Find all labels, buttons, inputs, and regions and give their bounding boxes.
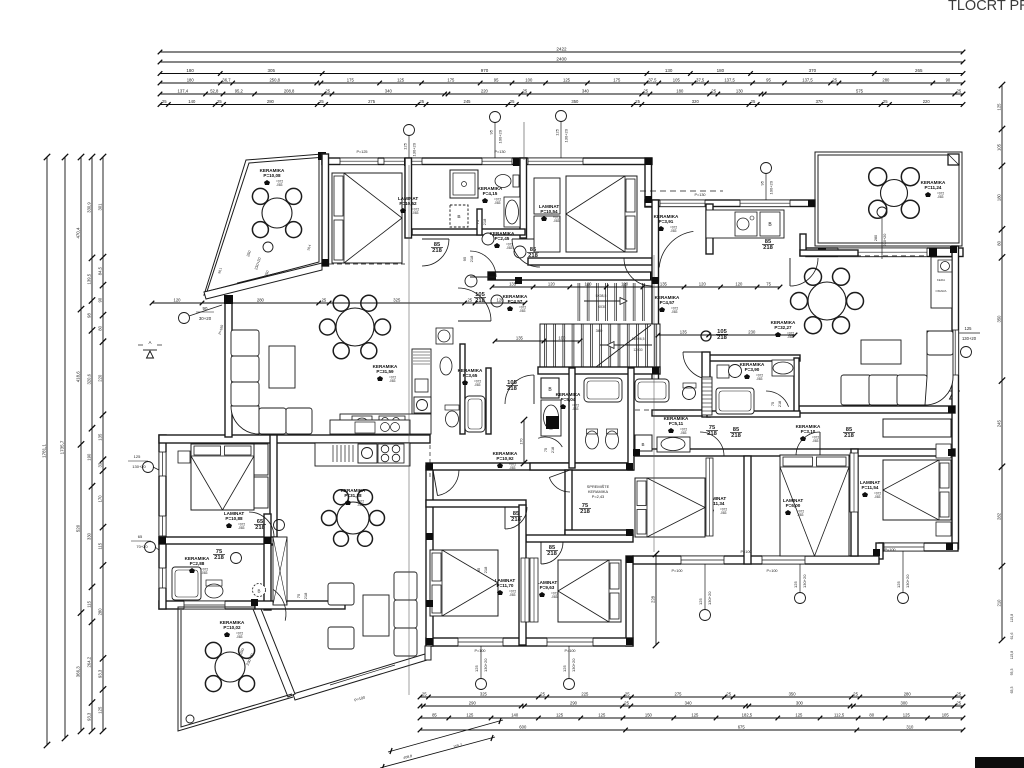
lower terrace parapet <box>178 607 293 731</box>
svg-text:220: 220 <box>481 88 489 93</box>
bottom step wall x=626 <box>626 556 633 646</box>
svg-text:80: 80 <box>869 712 874 717</box>
svg-text:85: 85 <box>476 567 481 572</box>
fridge circle top WC <box>436 328 453 344</box>
svg-text:575: 575 <box>856 88 864 93</box>
door knob circle right apt <box>701 331 711 341</box>
svg-text:340: 340 <box>582 88 590 93</box>
svg-text:220: 220 <box>97 374 102 382</box>
svg-text:P=11,70: P=11,70 <box>497 583 514 588</box>
bathroom lower-left fixtures <box>172 567 201 600</box>
WC wall <box>460 344 465 434</box>
svg-text:120: 120 <box>621 281 629 286</box>
living dim line y=303 <box>152 302 525 304</box>
svg-text:P=10,88: P=10,88 <box>225 516 243 521</box>
svg-text:340: 340 <box>385 88 393 93</box>
kitchen sink lower <box>358 444 377 463</box>
svg-text:125: 125 <box>996 103 1001 111</box>
top wall lower-left apartment <box>159 435 430 443</box>
bath1 bottom wall <box>412 229 525 235</box>
svg-text:218: 218 <box>763 245 773 251</box>
bath divider wall 2 <box>628 368 634 470</box>
svg-text:B: B <box>641 442 644 447</box>
svg-text:125: 125 <box>598 712 606 717</box>
svg-text:TLOCRT PR: TLOCRT PR <box>948 0 1024 14</box>
svg-text:P=10,08: P=10,08 <box>263 173 281 178</box>
corridor dim line y=341 <box>495 340 580 342</box>
kitchen counter right apartment <box>706 210 784 238</box>
svg-text:218: 218 <box>482 218 487 225</box>
kitchen vertical counter upper apt <box>412 349 431 414</box>
window marker bottom right 3 <box>898 593 909 604</box>
door arcs corridor right apt <box>700 432 724 456</box>
svg-text:70+20: 70+20 <box>136 544 148 549</box>
svg-text:25: 25 <box>643 88 648 93</box>
svg-text:320: 320 <box>692 99 700 104</box>
exterior top wall B <box>645 200 815 207</box>
svg-text:75: 75 <box>771 402 775 406</box>
svg-text:130+20: 130+20 <box>707 591 712 605</box>
svg-text:P=4,57: P=4,57 <box>660 300 675 305</box>
wall below terrace TR with glazing <box>806 248 963 257</box>
coffee table lower <box>363 595 389 636</box>
svg-text:130+20: 130+20 <box>412 142 417 156</box>
svg-text:220: 220 <box>923 99 931 104</box>
svg-text:P=10,52: P=10,52 <box>399 201 417 206</box>
window marker wall B <box>761 163 772 174</box>
door left bath <box>538 437 562 447</box>
svg-text:137,4: 137,4 <box>178 88 189 93</box>
svg-text:P=10,02: P=10,02 <box>223 625 241 630</box>
svg-text:100: 100 <box>525 77 533 82</box>
svg-text:P=4,15: P=4,15 <box>483 191 498 196</box>
svg-text:170: 170 <box>97 495 102 503</box>
svg-text:-083: -083 <box>506 246 513 250</box>
top wall A windows <box>340 157 378 165</box>
svg-text:366,3: 366,3 <box>75 666 80 678</box>
svg-text:P=2,45: P=2,45 <box>495 236 510 241</box>
svg-text:25: 25 <box>422 691 427 696</box>
svg-text:105: 105 <box>673 77 681 82</box>
wardrobe right apt bedroom1 <box>706 458 713 536</box>
stairs upper flight <box>578 283 644 321</box>
door centre bedroom1 <box>505 507 527 529</box>
washing machine bathroom1 <box>450 205 468 227</box>
svg-text:130+20: 130+20 <box>483 658 488 672</box>
armchair 2 <box>328 627 354 649</box>
window marker top 1 <box>404 125 415 136</box>
svg-text:-083: -083 <box>357 503 364 507</box>
sink bath 3,90 <box>772 360 794 376</box>
svg-text:125: 125 <box>555 128 560 135</box>
svg-text:275: 275 <box>368 99 376 104</box>
door bath 3,90 <box>766 391 789 407</box>
svg-text:-083: -083 <box>670 229 677 233</box>
svg-text:218: 218 <box>507 386 517 392</box>
washer lower-left <box>253 584 266 597</box>
bedroom divider 1 <box>744 456 751 564</box>
svg-text:137,5: 137,5 <box>802 77 813 82</box>
svg-text:470,4: 470,4 <box>75 227 80 239</box>
bathroom east wall lower-left <box>264 514 271 610</box>
svg-text:P=2,88: P=2,88 <box>190 561 205 566</box>
svg-text:-083: -083 <box>937 195 944 199</box>
sink bathroom1 <box>504 197 520 227</box>
svg-text:1735,7: 1735,7 <box>59 440 64 454</box>
living room west wall <box>225 297 232 437</box>
washer right bath <box>635 435 652 451</box>
vertical dim x=654 <box>655 554 657 645</box>
svg-text:OMARA: OMARA <box>935 289 946 293</box>
wardrobe bedroom3 <box>850 453 858 512</box>
stair hall walls <box>652 200 659 385</box>
svg-text:280: 280 <box>882 77 890 82</box>
svg-text:95: 95 <box>494 77 499 82</box>
svg-text:25: 25 <box>523 88 528 93</box>
svg-text:P=3,91: P=3,91 <box>659 219 674 224</box>
window markers bottom centre <box>476 679 487 690</box>
bedroom east wall lower-left <box>270 435 277 545</box>
WC toilet <box>446 411 459 427</box>
svg-text:P=130: P=130 <box>494 150 505 154</box>
armchair 1 <box>328 583 354 605</box>
svg-text:36,7: 36,7 <box>222 77 231 82</box>
svg-text:300: 300 <box>796 700 804 705</box>
svg-text:180: 180 <box>996 193 1001 201</box>
bed right apt bedroom3 <box>883 460 951 520</box>
tall cupboard right side <box>931 257 952 308</box>
exterior step wall right of wall A <box>645 158 652 207</box>
svg-text:-083: -083 <box>680 431 687 435</box>
svg-text:P=100: P=100 <box>766 569 777 573</box>
door arc entry right apt <box>659 231 693 267</box>
black scale bar bottom right <box>975 757 1024 768</box>
wall below stairs <box>538 367 660 374</box>
svg-text:350: 350 <box>996 315 1001 323</box>
svg-text:84,5: 84,5 <box>97 266 102 275</box>
svg-text:-083: -083 <box>553 219 560 223</box>
bedroom2 bottom wall <box>528 258 652 265</box>
svg-text:30+20: 30+20 <box>199 316 212 321</box>
svg-text:25: 25 <box>325 88 330 93</box>
top wall B window <box>660 199 705 207</box>
terrace TR column <box>948 154 959 165</box>
bathtub 2 <box>635 379 669 402</box>
svg-text:330: 330 <box>86 532 91 540</box>
WC sink <box>440 357 452 375</box>
bed centre apt right <box>558 560 621 622</box>
svg-text:-083: -083 <box>238 526 245 530</box>
sofa lower <box>394 572 417 600</box>
svg-text:175: 175 <box>613 77 621 82</box>
dashed partition right bath <box>635 409 695 411</box>
svg-text:140: 140 <box>511 712 519 717</box>
svg-text:218: 218 <box>483 566 488 573</box>
bath divider wall 1 <box>569 368 575 468</box>
svg-text:B: B <box>457 214 460 220</box>
bedroom divider 2 <box>851 449 858 556</box>
svg-text:-083: -083 <box>509 593 516 597</box>
svg-text:25: 25 <box>957 88 962 93</box>
svg-text:280: 280 <box>97 608 102 616</box>
svg-text:37,5: 37,5 <box>696 77 705 82</box>
window marker left 2 <box>143 462 154 473</box>
svg-text:130+20: 130+20 <box>132 464 146 469</box>
svg-text:112,5: 112,5 <box>834 712 845 717</box>
svg-text:228: 228 <box>650 595 655 603</box>
svg-text:-083: -083 <box>276 183 283 187</box>
dining table right apartment <box>808 282 846 320</box>
svg-text:139,5: 139,5 <box>86 273 91 284</box>
svg-text:218: 218 <box>528 253 538 259</box>
svg-text:218: 218 <box>731 433 741 439</box>
sofa right apartment <box>841 375 871 405</box>
vanity right bath <box>657 437 690 452</box>
svg-text:-083: -083 <box>519 309 526 313</box>
svg-text:105: 105 <box>942 712 950 717</box>
svg-text:218: 218 <box>844 433 854 439</box>
svg-text:301: 301 <box>97 203 102 211</box>
terrace column circle <box>186 715 194 723</box>
door hall arc 2 <box>470 251 496 277</box>
svg-text:350: 350 <box>789 691 797 696</box>
bed centre apt left <box>430 550 498 616</box>
nightstands bedroom3 <box>936 444 951 458</box>
svg-text:125: 125 <box>698 598 703 605</box>
svg-text:25: 25 <box>832 77 837 82</box>
right dimension chain <box>1001 85 1003 640</box>
entry wall <box>255 601 345 609</box>
svg-text:100+20: 100+20 <box>769 180 774 194</box>
svg-text:25: 25 <box>510 99 515 104</box>
svg-text:P=5,11: P=5,11 <box>669 421 684 426</box>
svg-text:125: 125 <box>403 142 408 149</box>
door arc hall-bath2 <box>512 239 540 267</box>
svg-text:125: 125 <box>903 712 911 717</box>
svg-text:P=100: P=100 <box>474 649 485 653</box>
svg-text:175: 175 <box>347 77 355 82</box>
svg-text:95,2: 95,2 <box>235 88 244 93</box>
svg-text:25: 25 <box>322 297 327 302</box>
svg-text:280: 280 <box>267 99 275 104</box>
svg-text:218: 218 <box>214 555 224 561</box>
upper corridor bottom wall <box>488 272 658 280</box>
bed lower-left bedroom <box>191 444 254 510</box>
svg-text:25: 25 <box>956 700 961 705</box>
angled wall A thick <box>251 604 295 697</box>
diagonal dimension line 408,8 <box>380 720 503 768</box>
svg-text:265: 265 <box>915 68 923 73</box>
toilet right bath <box>683 387 696 400</box>
svg-text:300: 300 <box>901 700 909 705</box>
svg-text:250,8: 250,8 <box>269 77 280 82</box>
svg-text:93,3: 93,3 <box>86 712 91 721</box>
svg-text:B: B <box>257 589 260 594</box>
bathroom P=3,90 walls <box>707 355 800 361</box>
svg-text:-083: -083 <box>797 513 804 517</box>
svg-text:418,6: 418,6 <box>75 371 80 383</box>
door bedroom1-hall <box>422 239 449 266</box>
svg-text:P=9,63: P=9,63 <box>540 585 555 590</box>
terrace TR rotated dims + marker <box>877 207 887 217</box>
svg-text:310: 310 <box>906 724 914 729</box>
svg-text:-083: -083 <box>671 310 678 314</box>
svg-text:210: 210 <box>996 599 1001 607</box>
svg-text:95: 95 <box>766 77 771 82</box>
svg-text:120: 120 <box>735 281 743 286</box>
svg-text:280: 280 <box>874 235 878 241</box>
bedroom1 right wall <box>405 158 412 238</box>
svg-text:125: 125 <box>896 581 901 588</box>
left wall windows <box>158 452 166 476</box>
svg-text:93,3: 93,3 <box>97 669 102 678</box>
svg-text:130+20: 130+20 <box>564 128 569 142</box>
vertical dim x=520 small <box>523 420 525 463</box>
section mark right <box>950 392 957 399</box>
window markers bottom right <box>700 610 711 621</box>
svg-text:170: 170 <box>519 439 523 445</box>
svg-text:-083: -083 <box>509 466 516 470</box>
svg-text:125: 125 <box>397 77 405 82</box>
svg-text:140: 140 <box>188 99 196 104</box>
bedroom divider centre <box>519 505 526 645</box>
svg-text:P=11,54: P=11,54 <box>862 485 879 490</box>
svg-text:P=5,04: P=5,04 <box>561 397 576 402</box>
right bedroom top wall <box>526 535 633 542</box>
svg-text:330,9: 330,9 <box>86 202 91 213</box>
top dimension chain block <box>160 51 963 53</box>
svg-text:P=125: P=125 <box>356 150 367 154</box>
svg-text:340: 340 <box>685 700 693 705</box>
left bedroom top wall <box>426 500 526 507</box>
svg-text:37,5: 37,5 <box>648 77 657 82</box>
svg-text:P=130: P=130 <box>694 193 705 197</box>
svg-text:175: 175 <box>447 77 455 82</box>
right wall window <box>951 330 959 375</box>
exterior top wall A <box>322 158 652 165</box>
svg-text:90: 90 <box>97 297 102 302</box>
black fixture <box>546 416 559 429</box>
svg-text:180: 180 <box>187 77 195 82</box>
svg-text:135: 135 <box>660 281 668 286</box>
bedroom1 left wall <box>322 154 329 266</box>
svg-text:520: 520 <box>75 524 80 532</box>
section mark left <box>147 351 154 358</box>
svg-text:P=100: P=100 <box>740 550 751 554</box>
axis line vertical x=524 <box>523 122 525 160</box>
svg-text:25: 25 <box>419 99 424 104</box>
columns top wall A <box>404 158 412 166</box>
svg-text:80: 80 <box>97 325 102 330</box>
svg-text:-083: -083 <box>756 377 763 381</box>
bed bedroom1 <box>332 173 402 263</box>
svg-text:120: 120 <box>548 281 556 286</box>
nightstand lower-left <box>178 451 190 463</box>
svg-text:180: 180 <box>186 68 194 73</box>
window marker top 2 <box>490 112 501 123</box>
stove upper apt <box>414 397 431 413</box>
terrace TL column <box>318 152 326 160</box>
svg-text:115,8: 115,8 <box>1010 614 1014 623</box>
svg-text:290: 290 <box>570 700 578 705</box>
door apt entry left <box>505 375 534 404</box>
svg-text:130: 130 <box>665 68 673 73</box>
terrace TR round table <box>881 180 908 207</box>
svg-text:KERA: KERA <box>937 278 945 282</box>
corner column living room <box>224 295 233 304</box>
kitchen wall right apartment <box>706 204 713 254</box>
svg-text:360: 360 <box>596 328 603 333</box>
toilets pair <box>586 431 599 449</box>
svg-text:125: 125 <box>965 326 973 331</box>
svg-text:120: 120 <box>585 281 593 286</box>
wardrobe lower-left bedroom <box>251 444 268 475</box>
svg-text:137,5: 137,5 <box>724 77 735 82</box>
svg-text:90: 90 <box>203 306 208 311</box>
svg-text:245: 245 <box>464 99 472 104</box>
svg-text:75: 75 <box>766 281 771 286</box>
svg-text:600: 600 <box>519 724 527 729</box>
wardrobe entry <box>273 537 287 605</box>
svg-text:25: 25 <box>162 99 167 104</box>
bedroom bottom wall <box>159 537 277 544</box>
svg-text:P=6,00: P=6,00 <box>786 503 801 508</box>
svg-text:180: 180 <box>717 68 725 73</box>
terrace top-right parapet <box>815 152 962 246</box>
svg-text:P=100: P=100 <box>671 569 682 573</box>
svg-text:130+20: 130+20 <box>802 574 807 588</box>
svg-text:125: 125 <box>466 712 474 717</box>
lower terrace table <box>215 652 245 682</box>
svg-text:135: 135 <box>680 329 688 334</box>
svg-text:125: 125 <box>795 712 803 717</box>
dashed line below kitchen <box>429 445 431 480</box>
svg-text:120: 120 <box>699 281 707 286</box>
svg-text:-083: -083 <box>236 635 243 639</box>
svg-text:2400: 2400 <box>556 56 567 61</box>
svg-text:P=3,65: P=3,65 <box>463 373 478 378</box>
corridor top wall centre apartment <box>426 463 633 470</box>
svg-text:125: 125 <box>134 454 141 459</box>
angled wall B with window (lower terrace) <box>293 654 427 700</box>
svg-text:P=31,38: P=31,38 <box>344 493 362 498</box>
svg-text:-083: -083 <box>201 571 208 575</box>
svg-text:320,6: 320,6 <box>86 373 91 384</box>
angled exterior wall under terrace TL <box>204 263 322 299</box>
svg-text:182,5: 182,5 <box>742 712 753 717</box>
svg-text:95: 95 <box>462 256 467 261</box>
left wall lower-left apartment <box>159 435 166 609</box>
right apt corridor top wall <box>799 406 955 413</box>
svg-text:-083: -083 <box>389 379 396 383</box>
svg-text:95: 95 <box>489 129 494 134</box>
dresser right apt bedroom3 <box>883 419 951 437</box>
exterior bottom-right walls <box>879 543 958 551</box>
svg-text:25: 25 <box>956 691 961 696</box>
shower bathroom1 <box>450 170 478 198</box>
svg-text:125: 125 <box>556 712 564 717</box>
svg-text:125: 125 <box>474 665 479 672</box>
svg-text:25: 25 <box>883 99 888 104</box>
sink cabinet left bath <box>541 400 561 436</box>
svg-text:280: 280 <box>257 297 265 302</box>
door right apt entry <box>683 352 710 379</box>
svg-text:12030: 12030 <box>633 348 642 352</box>
svg-text:135: 135 <box>516 335 524 340</box>
svg-text:225: 225 <box>581 691 589 696</box>
svg-text:218: 218 <box>551 447 555 453</box>
svg-text:5X08,5: 5X08,5 <box>596 294 607 298</box>
